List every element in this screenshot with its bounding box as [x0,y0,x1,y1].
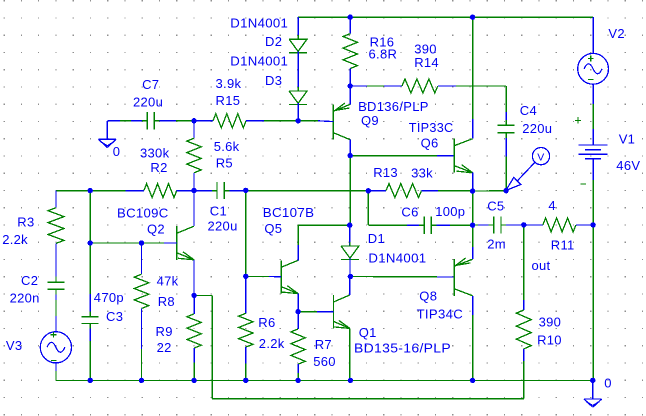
svg-text:C7: C7 [142,77,159,92]
junction rail R6 [243,378,248,383]
capacitor C6 [407,217,473,234]
label R7 ref [315,337,332,352]
junction B-Q2base [88,240,93,245]
svg-text:D1N4001: D1N4001 [230,15,288,30]
svg-text:5.6k: 5.6k [214,139,240,154]
label R15 value [216,76,242,91]
resistor R6 [239,276,253,380]
junction rail R8 [139,378,144,383]
wire Q1 base [298,311,333,313]
label R9 ref [156,324,173,339]
svg-text:V: V [537,152,544,164]
svg-text:R3: R3 [17,215,34,230]
label V1 value [616,158,640,173]
junction Q1C-D1-Q8base [348,274,353,279]
junction bus-B [88,188,93,193]
label R13 value [411,165,433,180]
junction Q2E-R9-feedback [191,293,196,298]
diode D1 [341,225,359,276]
wire out node [523,225,525,300]
label node out [532,258,551,273]
junction F-Q5base-R6 [243,274,248,279]
label node 0 bottom-right [604,375,612,390]
label R16 value [369,46,398,61]
label node 0 top-left [113,144,121,159]
svg-text:46V: 46V [616,158,640,173]
svg-text:560: 560 [313,354,336,369]
svg-text:4: 4 [548,198,556,213]
label Q9 ref [361,113,379,128]
label Q2 value [117,206,169,221]
wire base bus [90,242,141,244]
wire Q1 emitter [349,328,351,380]
wire bottom rail [90,379,593,381]
label C2 value [10,291,40,306]
label R3 ref [17,215,34,230]
wire top right corner [592,17,594,53]
battery V1 [579,145,608,159]
source V2 [578,53,609,84]
label Q9 value [358,99,429,114]
svg-text:D1N4001: D1N4001 [230,54,288,69]
wire Q9C down [349,156,351,226]
svg-text:22: 22 [157,340,172,355]
svg-text:BD135-16/PLP: BD135-16/PLP [354,341,451,356]
label R11 ref [551,238,575,253]
wire V3 bottom [56,363,90,381]
label Q6 value [409,120,454,135]
label V3 ref [6,338,23,353]
wire F vertical [245,191,247,277]
label C6 ref [401,204,418,219]
wire right rail [592,225,594,381]
junction D3-R15-Q9B [295,118,300,123]
junction bus-D [191,188,196,193]
label C6 value [435,204,465,219]
svg-text:47k: 47k [157,273,179,288]
svg-text:TIP34C: TIP34C [417,307,463,322]
resistor R5 [187,121,201,191]
label R3 value [2,232,28,247]
junction M-R13 [470,188,475,193]
junction R16-R14-Q9E [348,83,353,88]
svg-text:D2: D2 [265,34,282,49]
V1 plus [575,117,581,123]
label Q6 ref [421,136,439,151]
svg-text:R15: R15 [216,93,241,108]
resistor R2 [126,184,195,198]
wire feedback [194,295,524,398]
label R5 value [214,139,240,154]
svg-text:0: 0 [113,144,121,159]
label R13 ref [373,165,398,180]
transistor Q9 [333,86,350,156]
svg-text:R13: R13 [373,165,398,180]
svg-text:V2: V2 [608,26,625,41]
wire Q9 base [298,120,333,123]
label R14 ref [414,55,439,70]
label C4 value [522,121,552,136]
svg-text:D1N4001: D1N4001 [368,251,426,266]
label C1 value [208,219,238,234]
svg-text:390: 390 [539,314,562,329]
label Q1 value [354,341,451,356]
label R2 value [140,146,170,161]
junction out [521,222,526,227]
junction bus-K R13 [366,188,371,193]
label R8 ref [158,294,175,309]
svg-text:2.2k: 2.2k [2,232,28,247]
svg-text:220u: 220u [133,94,163,109]
label C1 ref [210,204,227,219]
svg-text:R9: R9 [156,324,173,339]
resistor R9 [187,295,201,380]
probe V [506,148,550,191]
svg-text:R10: R10 [537,333,562,348]
svg-text:R8: R8 [158,294,175,309]
svg-text:220u: 220u [208,219,238,234]
junction rail R9 [191,378,196,383]
ground 0 top-left [98,121,116,148]
label R6 ref [258,315,275,330]
wire R13 node to C4 node [473,190,507,192]
wire Q5 collector [297,225,299,260]
svg-text:2m: 2m [487,237,506,252]
resistor R10 [516,300,531,399]
wire Q9C to Q6 base [350,155,454,157]
label D2 ref [265,34,282,49]
wire bus B [246,190,368,192]
V3 minus [51,360,57,362]
wire B vertical top [89,191,91,243]
wire K down corner [368,191,407,226]
wire V+ to Q6 collector [472,17,474,139]
wire Q2 emitter [193,260,195,295]
source V3 [40,332,71,363]
svg-text:TIP33C: TIP33C [409,120,454,135]
svg-text:2.2k: 2.2k [259,336,285,351]
svg-text:C5: C5 [487,198,504,213]
capacitor C5 [473,216,524,233]
junction R8 top [139,240,144,245]
V3 plus [51,332,57,338]
svg-text:R2: R2 [150,160,167,175]
label V1 ref [619,132,636,147]
label R7 value [313,354,336,369]
svg-text:C1: C1 [210,204,227,219]
svg-text:D1: D1 [368,231,385,246]
capacitor C4 [498,86,515,191]
svg-text:V1: V1 [619,132,636,147]
label C7 ref [142,77,159,92]
wire gnd to C7 [107,120,142,122]
diode D2 [289,17,307,55]
label C2 ref [21,273,38,288]
label C5 ref [487,198,504,213]
transistor Q1 [334,295,350,328]
wire Q1C to Q8 base [350,276,454,278]
transistor Q6 [454,139,472,173]
label Q8 ref [419,289,437,304]
svg-text:BC107B: BC107B [263,205,315,220]
label Q2 ref [147,222,165,237]
svg-text:Q5: Q5 [264,221,282,236]
label D2 value [230,15,288,30]
label R2 ref [150,160,167,175]
junction D1 top [347,223,352,228]
wire bus A [90,190,125,192]
svg-text:220n: 220n [10,291,40,306]
label Q5 ref [264,221,282,236]
label C3 ref [106,309,123,324]
capacitor C7 [142,112,159,129]
resistor R15 [194,114,298,128]
junction Q5E-Q1B-R7 [295,309,300,314]
svg-text:33k: 33k [411,165,433,180]
wire Q5C row [298,224,350,226]
label D3 value [230,54,288,69]
transistor Q8 [454,258,472,296]
svg-text:0: 0 [604,375,612,390]
svg-text:470p: 470p [94,290,124,305]
svg-text:Q1: Q1 [359,325,377,340]
wire Q6 emitter down [472,173,474,191]
resistor R11 [524,218,593,232]
label C3 value [94,290,124,305]
svg-text:100p: 100p [435,204,465,219]
label V2 ref [608,26,625,41]
junction top M [470,15,475,20]
junction bus-F [243,188,248,193]
svg-text:R5: R5 [216,156,233,171]
label R14 value [414,42,437,57]
wire V2 to V1 [592,84,594,145]
label R8 value [157,273,179,288]
label D1 ref [368,231,385,246]
capacitor C2 [48,282,65,331]
label C7 value [133,94,163,109]
transistor Q5 [281,260,298,293]
junction Q9C node [348,153,353,158]
junction rail Q8C [470,378,475,383]
resistor R16 [343,17,357,86]
diode D3 [289,51,307,121]
svg-text:R7: R7 [315,337,332,352]
junction R11-rail [590,222,595,227]
transistor Q2 [177,226,194,260]
label Q8 value [417,307,463,322]
label C4 ref [520,103,537,118]
svg-text:R6: R6 [258,315,275,330]
resistor R13 [368,184,472,198]
label R5 ref [216,156,233,171]
junction rail R7 [295,378,300,383]
svg-text:C4: C4 [520,103,537,118]
label D3 ref [265,73,282,88]
resistor R7 [291,312,305,381]
V2 plus [588,56,594,62]
resistor R8 [134,243,148,380]
label D1 value [368,251,426,266]
wire V1 down [592,159,594,225]
label Q5 value [263,205,315,220]
label R9 value [157,340,172,355]
svg-text:Q9: Q9 [361,113,379,128]
capacitor C1 [194,182,246,199]
svg-text:6.8R: 6.8R [369,46,398,61]
resistor R14 [350,79,506,93]
svg-text:220u: 220u [522,121,552,136]
svg-text:R11: R11 [551,238,575,253]
svg-text:C3: C3 [106,309,123,324]
label R10 value [539,314,562,329]
junction rail gnd [590,378,595,383]
V1 minus [581,183,586,185]
svg-text:BD136/PLP: BD136/PLP [358,99,429,114]
wire Q5 emitter [297,294,299,312]
junction top R16 [348,15,353,20]
svg-text:BC109C: BC109C [117,206,169,221]
label R16 ref [370,35,395,50]
wire bus left corner [56,190,90,192]
junction rail C3 [88,378,93,383]
V2 minus [588,79,594,81]
svg-text:C6: C6 [401,204,418,219]
label Q1 ref [359,325,377,340]
resistor R3 [48,191,64,283]
svg-text:Q2: Q2 [147,222,165,237]
wire M vertical mid [472,191,474,225]
capacitor C3 [82,243,99,380]
label C5 value [487,237,506,252]
wire Q8 collector down [472,296,474,381]
svg-text:V3: V3 [6,338,23,353]
label R11 value [548,198,556,213]
svg-text:330k: 330k [140,146,170,161]
wire Q5 base [246,275,281,278]
wire C7 to R5 node [160,120,195,122]
wire Q8 emitter up [472,225,474,259]
svg-text:C2: C2 [21,273,38,288]
wire Q2 collector [193,191,195,226]
svg-text:R14: R14 [414,55,439,70]
junction C7-R5-R15 [191,118,196,123]
label R6 value [259,336,285,351]
wire Q1 collector [349,277,351,296]
wire Q2 base [142,242,177,244]
svg-text:Q8: Q8 [419,289,437,304]
svg-text:Q6: Q6 [421,136,439,151]
junction rail Q1E [348,378,353,383]
label R10 ref [537,333,562,348]
label R15 ref [216,93,241,108]
svg-text:3.9k: 3.9k [216,76,242,91]
svg-text:out: out [532,258,551,273]
junction C4-probe [503,188,508,193]
wire top rail [298,16,593,18]
svg-text:D3: D3 [265,73,282,88]
ground 0 bottom-right [584,380,602,407]
junction M-C6-C5 [470,223,475,228]
